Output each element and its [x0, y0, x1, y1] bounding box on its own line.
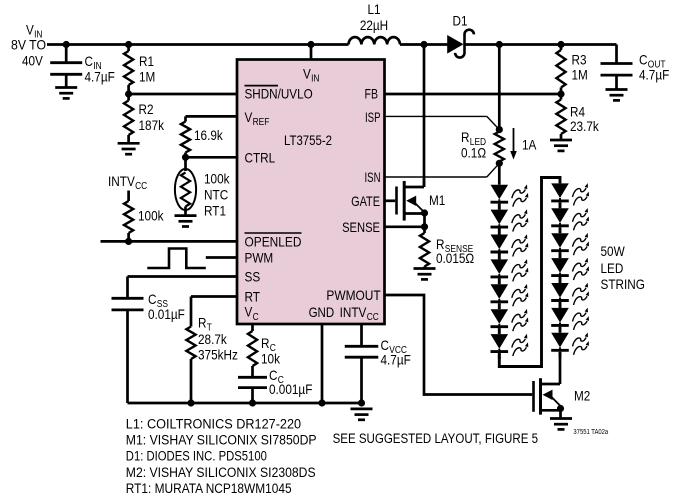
svg-text:FB: FB [365, 86, 379, 102]
resistor RC [251, 324, 254, 331]
svg-text:PWM: PWM [245, 250, 274, 266]
LED D1-5 string1 [491, 284, 509, 299]
svg-text:R: R [198, 315, 207, 331]
svg-text:ISP: ISP [365, 109, 381, 125]
svg-text:CC: CC [135, 181, 147, 192]
svg-text:C: C [253, 312, 259, 323]
svg-text:LT3755-2: LT3755-2 [284, 132, 332, 148]
ground RSENSE [414, 267, 436, 270]
svg-text:D1: D1 [453, 13, 468, 29]
node dot CIN [63, 41, 70, 48]
svg-text:R3: R3 [572, 52, 587, 68]
LED D2-2 string2 [551, 208, 569, 223]
svg-text:16.9k: 16.9k [194, 127, 224, 143]
node dot RLED bottom [496, 160, 503, 167]
wire L1 to D1 [400, 43, 448, 46]
wire SHDN/UVLO [129, 93, 237, 96]
LED D2-5 string2 [551, 283, 569, 298]
svg-text:R2: R2 [139, 101, 154, 117]
node dot VIN pin [307, 41, 314, 48]
svg-text:M1: VISHAY SILICONIX SI7850DP: M1: VISHAY SILICONIX SI7850DP [126, 433, 317, 448]
svg-text:8V TO: 8V TO [11, 37, 46, 53]
svg-text:0.001µF: 0.001µF [269, 381, 312, 397]
wire bottom ground rail [128, 402, 362, 405]
PWM pulse waveform symbol [147, 249, 206, 269]
current arrow 1A [513, 128, 515, 152]
transistor M1 NMOS [385, 199, 396, 202]
wire SS [128, 275, 238, 278]
svg-text:LED: LED [601, 260, 624, 276]
resistor R2 [127, 94, 130, 101]
svg-text:V: V [245, 109, 253, 125]
svg-text:OPENLED: OPENLED [245, 234, 302, 250]
svg-text:M1: M1 [429, 192, 445, 208]
svg-text:GATE: GATE [351, 193, 380, 209]
ground main [351, 408, 373, 411]
svg-text:RT1: MURATA NCP18WM1045: RT1: MURATA NCP18WM1045 [126, 481, 292, 496]
svg-text:R1: R1 [139, 53, 154, 69]
LED D2-1 string2 [551, 183, 569, 198]
capacitor COUT [615, 45, 618, 64]
wire VIN pin [310, 45, 313, 60]
wire VREF [186, 115, 238, 118]
svg-text:100k: 100k [204, 171, 230, 187]
resistor R1 [127, 45, 130, 52]
svg-text:M2: M2 [574, 388, 590, 404]
node dot CC rail [249, 399, 256, 406]
svg-text:GND: GND [309, 304, 335, 320]
resistor RSENSE [423, 227, 426, 233]
ground M2 [550, 417, 572, 420]
svg-text:RT1: RT1 [204, 203, 226, 219]
svg-text:V: V [26, 22, 34, 38]
node dot D1 cathode [496, 41, 503, 48]
wire FB [385, 93, 562, 96]
svg-text:0.015Ω: 0.015Ω [436, 250, 474, 266]
LED D2-7 string2 [551, 333, 569, 348]
ground RT1 [175, 214, 197, 217]
svg-text:M2: VISHAY SILICONIX SI2308DS: M2: VISHAY SILICONIX SI2308DS [126, 465, 316, 480]
svg-text:100k: 100k [138, 208, 164, 224]
resistor RLED [495, 132, 504, 162]
wire GND pin [321, 324, 324, 403]
svg-text:INTV: INTV [340, 304, 367, 320]
svg-text:375kHz: 375kHz [198, 347, 238, 363]
capacitor CSS [126, 277, 129, 299]
svg-text:23.7k: 23.7k [570, 118, 600, 134]
node dot RT rail [187, 399, 194, 406]
svg-text:0.1Ω: 0.1Ω [461, 145, 486, 161]
svg-text:SHDN/UVLO: SHDN/UVLO [245, 86, 313, 102]
svg-text:50W: 50W [601, 243, 626, 259]
svg-text:CC: CC [367, 312, 379, 323]
svg-text:D1: DIODES INC. PDS5100: D1: DIODES INC. PDS5100 [126, 449, 267, 464]
svg-text:22µH: 22µH [360, 17, 388, 33]
svg-text:40V: 40V [22, 53, 43, 69]
LED D1-2 string1 [491, 210, 509, 225]
wire string1 bottom U-connector [499, 178, 560, 367]
node dot R3 top [557, 41, 564, 48]
node dot FB junction [557, 90, 564, 97]
wire RLED bottom to LED string 1 [498, 163, 501, 184]
node dot INTVCC rail [358, 399, 365, 406]
wire ISP [385, 115, 487, 117]
svg-text:SEE SUGGESTED LAYOUT, FIGURE 5: SEE SUGGESTED LAYOUT, FIGURE 5 [333, 431, 538, 446]
svg-text:L1: L1 [367, 1, 380, 17]
svg-text:NTC: NTC [204, 187, 228, 203]
svg-text:C: C [85, 53, 94, 69]
node dot M2 source [557, 405, 564, 412]
LED D2-4 string2 [551, 258, 569, 273]
svg-text:R: R [261, 335, 270, 351]
wire VIN rail left segment [47, 43, 349, 46]
svg-text:ISN: ISN [365, 169, 381, 185]
thermistor RT1 (100k NTC) [184, 157, 187, 171]
ground R4 [550, 139, 572, 142]
svg-text:28.7k: 28.7k [198, 331, 228, 347]
wire OPENLED [101, 240, 238, 243]
svg-text:4.7µF: 4.7µF [639, 67, 669, 83]
node dot SHDN junction [125, 90, 132, 97]
svg-text:V: V [245, 304, 253, 320]
node dot GND rail [318, 399, 325, 406]
LED D1-7 string1 [491, 334, 509, 349]
resistor 16.9k [184, 116, 187, 121]
resistor RT [190, 297, 193, 327]
node dot CTRL junction [182, 154, 189, 161]
LED D1-1 string1 [491, 185, 509, 200]
svg-text:C: C [148, 291, 157, 307]
transistor M2 NMOS [532, 381, 535, 412]
inductor L1 [349, 37, 401, 44]
node dot SENSE junction [421, 223, 428, 230]
svg-text:C: C [639, 52, 648, 68]
svg-text:SS: SS [245, 269, 261, 285]
op-amp U1 LT3755-2 IC body [237, 60, 385, 325]
diode D1 (schottky) [447, 35, 463, 54]
wire ISN [385, 176, 487, 178]
wire SENSE [423, 214, 426, 227]
wire D1 to COUT [465, 43, 617, 46]
svg-text:L1: COILTRONICS DR127-220: L1: COILTRONICS DR127-220 [126, 417, 301, 432]
node dot SW [420, 41, 427, 48]
svg-text:STRING: STRING [601, 276, 645, 292]
capacitor CC [238, 376, 267, 379]
resistor R4 [560, 94, 563, 100]
ground CIN [55, 86, 77, 89]
wire CTRL [186, 156, 238, 159]
svg-text:SENSE: SENSE [342, 219, 380, 235]
svg-text:RT: RT [245, 289, 261, 305]
wire PWMOUT to M2 gate [385, 295, 533, 395]
node dot M1 source [421, 209, 428, 216]
svg-text:1M: 1M [139, 69, 155, 85]
svg-text:CTRL: CTRL [245, 150, 276, 166]
svg-text:1M: 1M [572, 67, 588, 83]
wire RT [191, 295, 237, 298]
svg-text:R: R [461, 129, 470, 145]
ground R2 [118, 142, 140, 145]
svg-text:187k: 187k [139, 117, 165, 133]
svg-text:V: V [303, 66, 311, 82]
node dot OPENLED junction [125, 238, 132, 245]
capacitor CIN [65, 45, 68, 63]
svg-text:0.01µF: 0.01µF [148, 306, 185, 322]
ground COUT [606, 88, 628, 91]
wire SW node to M1 drain [423, 45, 426, 188]
resistor R3 [560, 45, 563, 51]
svg-text:REF: REF [253, 117, 270, 128]
LED D2-3 string2 [551, 233, 569, 248]
LED D2-6 string2 [551, 308, 569, 323]
wire string2 bottom to M2 drain [559, 353, 562, 384]
svg-text:PWMOUT: PWMOUT [326, 287, 381, 303]
LED D1-4 string1 [491, 259, 509, 274]
wire PWM [206, 256, 237, 259]
svg-text:1A: 1A [522, 137, 537, 153]
wire D1 cathode down to RLED [498, 45, 501, 130]
LED D1-6 string1 [491, 309, 509, 324]
svg-text:4.7µF: 4.7µF [85, 69, 115, 85]
LED D1-3 string1 [491, 235, 509, 250]
svg-text:IN: IN [311, 74, 319, 85]
capacitor CVCC [360, 324, 363, 346]
node dot R1 [125, 41, 132, 48]
svg-text:10k: 10k [261, 351, 281, 367]
svg-text:37551 TA02a: 37551 TA02a [573, 429, 608, 436]
node dot RLED top [496, 126, 503, 133]
resistor 100k INTVCC [127, 191, 130, 202]
svg-text:4.7µF: 4.7µF [381, 352, 411, 368]
svg-text:INTV: INTV [108, 173, 135, 189]
